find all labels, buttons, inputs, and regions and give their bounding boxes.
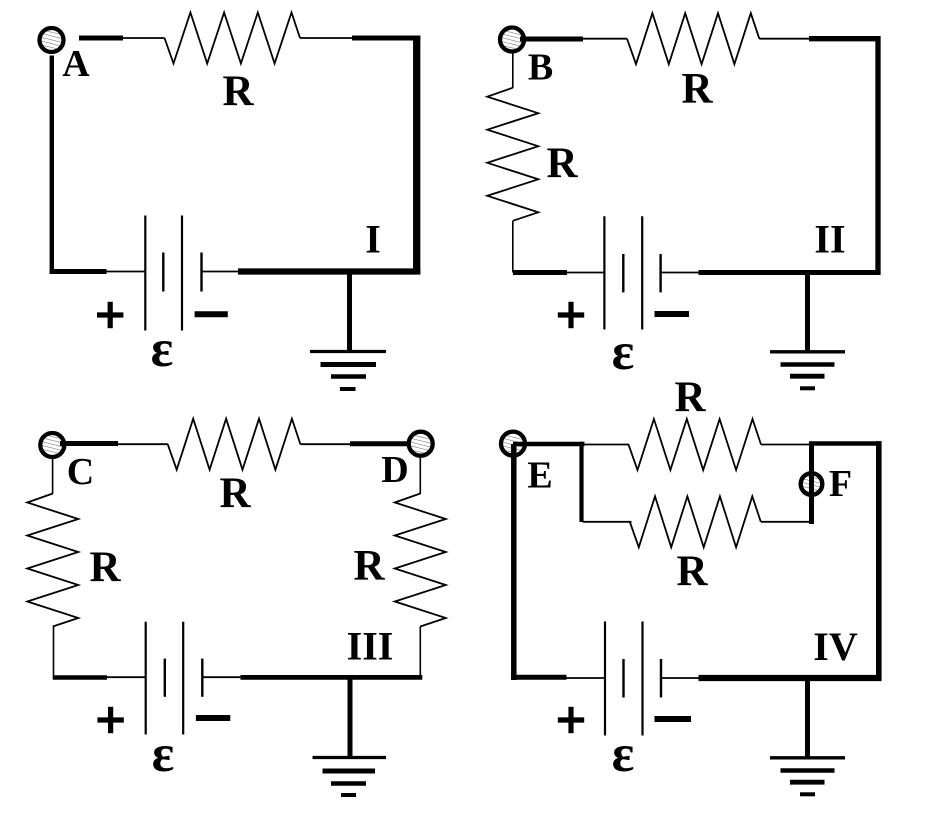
wire: bottom right thick segment (circuit II) [699,270,881,275]
wire: thin lead into bottom resistor (circuit IV) [583,521,632,523]
svg-text:E: E [527,455,552,497]
wire: thin lead left of battery (circuit II) [567,272,605,274]
node D [409,432,433,456]
ground (circuit II) [770,273,845,389]
wire: thin lead left of battery (circuit III) [106,676,146,678]
battery minus sign (circuit III) [196,715,230,721]
wire: bottom left thick segment (circuit I) [50,269,107,274]
svg-text:ε: ε [612,323,635,381]
svg-text:ε: ε [151,320,174,378]
wire: bottom left thick segment (circuit II) [513,270,567,275]
wire: thick lead from node E (circuit IV) [513,442,585,447]
wire: thin lead right of battery (circuit IV) [661,677,699,679]
wire: thin lead from top resistor right (circuit II) [759,38,810,40]
resistor R (circuit III, left vertical) [27,494,78,627]
resistor R (circuit IV, bottom) [630,496,761,547]
wire: bottom right thick segment (circuit I) [238,268,420,274]
wire: thin lead from top resistor to node F vertical (circuit IV) [761,444,813,446]
svg-text:I: I [365,217,381,262]
battery ε (circuit II) [604,216,660,329]
ground (circuit IV) [770,678,845,794]
svg-text:ε: ε [152,725,175,783]
node F [801,473,823,495]
wire: thin lead left of battery (circuit I) [106,271,145,273]
wire: thin vertical from left resistor to bottom (circuit II) [512,221,514,273]
wire: thin lead right of battery (circuit II) [661,272,699,274]
wire: thick lead from node C to resistor (circuit III) [60,441,118,446]
svg-text:R: R [353,543,385,590]
resistor R (circuit III, right vertical) [395,494,446,627]
node A [40,28,64,52]
svg-text:III: III [347,624,394,669]
wire: thin vertical right resistor to bottom (circuit III) [419,627,421,678]
battery plus sign (circuit II) [558,312,584,317]
wire: thin lead into top resistor (circuit II) [582,38,627,40]
wire: bottom right thick segment (circuit IV) [699,675,882,681]
wire: thin lead from top resistor to node D (circuit III) [300,443,351,445]
svg-text:IV: IV [813,624,858,669]
wire: thin vertical left resistor to bottom (circuit III) [53,627,55,679]
battery ε (circuit III) [146,622,203,735]
svg-text:R: R [681,66,713,113]
svg-text:R: R [674,374,706,421]
svg-text:B: B [528,47,553,89]
battery minus sign (circuit I) [195,311,228,317]
wire: thin lead left of battery (circuit IV) [566,677,605,679]
wire: left edge vertical (circuit IV) [511,444,517,680]
node E [501,432,525,456]
wire: right edge vertical (circuit I) [413,36,420,275]
svg-text:R: R [676,548,708,595]
wire: right edge vertical (circuit IV) [876,441,882,680]
wire: thin lead from resistor R to right (circuit I) [300,37,353,39]
battery ε (circuit IV) [605,622,661,736]
ground (circuit III) [313,677,387,795]
wire: thin lead into top resistor (circuit III) [117,443,168,445]
svg-text:D: D [381,449,408,491]
battery minus sign (circuit IV) [655,716,692,722]
wire: bottom right thick segment (circuit III) [241,675,423,680]
battery plus sign (circuit IV) [558,717,584,722]
wire: thick lead into node D (circuit III) [350,441,412,446]
wire: thin lead from bottom resistor to node F vertical (circuit IV) [761,521,813,523]
wire: thin vertical below node B (circuit II) [512,53,514,89]
ground (circuit I) [310,272,386,390]
battery plus sign (circuit I) [97,312,123,317]
resistor R (circuit III, top) [168,419,301,470]
node C [40,433,64,457]
wire: left edge vertical (circuit I) [50,56,54,274]
wire: thin vertical below node D (circuit III) [419,457,421,494]
battery minus sign (circuit II) [655,311,690,317]
wire: thick top-right segment (circuit II) [809,36,881,41]
resistor R (circuit IV, top) [629,419,762,470]
wire: thick top-right segment (circuit I) [352,36,420,41]
svg-text:F: F [829,463,852,505]
svg-text:ε: ε [612,725,635,783]
wire: thick vertical through node F (circuit IV) [809,442,814,524]
wire: right edge vertical (circuit II) [875,36,880,275]
wire: thick junction vertical between branches (circuit IV) [579,442,583,522]
wire: bottom left thick segment (circuit IV) [511,675,567,680]
wire: thin lead into top resistor (circuit IV) [583,444,629,446]
svg-text:R: R [219,470,251,517]
svg-text:R: R [546,140,578,187]
node B [500,28,524,52]
wire: thin lead right of battery (circuit III) [202,676,240,678]
wire: thin lead battery to bottom right wire (circuit I) [202,271,239,273]
wire: thin lead into resistor R (circuit I) [122,37,165,39]
battery plus sign (circuit III) [97,717,123,722]
wire: bottom left thick segment (circuit III) [53,675,107,679]
svg-text:R: R [89,544,121,591]
wire: thick top-right segment (circuit IV) [809,441,882,446]
resistor R (circuit I, top) [165,13,301,64]
svg-text:A: A [62,43,90,85]
resistor R (circuit II, top) [627,13,759,64]
svg-text:II: II [814,217,845,262]
svg-text:C: C [67,451,94,493]
wire: thick lead from node A to resistor R (circuit I) [79,36,123,41]
battery ε (circuit I) [145,216,201,331]
wire: thick lead from node B to resistor (circuit II) [520,37,583,42]
wire: thin vertical below node C (circuit III) [52,458,54,494]
svg-text:R: R [222,68,254,115]
resistor R (circuit II, left vertical) [487,88,538,221]
